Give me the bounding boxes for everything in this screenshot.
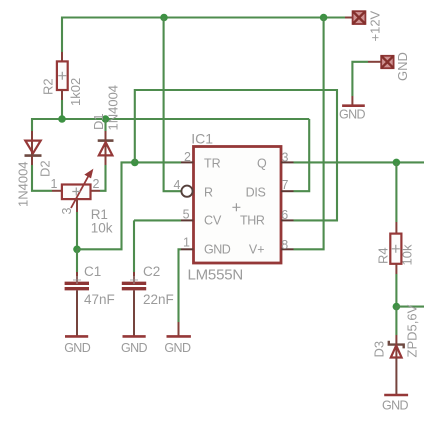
wire junction to C1 [76, 249, 78, 281]
pin name R [204, 185, 213, 199]
potentiometer R1 [62, 170, 93, 208]
pin number 1 [183, 236, 190, 250]
pin number 2 (R1) [93, 177, 100, 191]
pin 3 Q stub [281, 161, 294, 163]
svg-text:+12V: +12V [368, 10, 383, 41]
wire Q output [294, 161, 424, 163]
wire C2 bottom [133, 290, 135, 336]
pin name V+ [249, 243, 265, 257]
svg-text:6: 6 [281, 208, 288, 222]
pin name CV [204, 214, 222, 228]
pin 4 R bubble [181, 186, 192, 197]
svg-text:ZPD5,6V: ZPD5,6V [405, 304, 420, 357]
svg-text:10k: 10k [400, 244, 415, 265]
svg-text:1: 1 [51, 177, 58, 191]
wire Q to R4 [395, 162, 397, 233]
pin number 3 (R1) [60, 208, 74, 215]
wire TR to THR loop [135, 90, 337, 220]
resistor R4 [390, 234, 401, 264]
label R2 [40, 78, 55, 95]
ground symbol (C2) [123, 335, 146, 338]
svg-text:10k: 10k [91, 220, 113, 235]
label C1 [84, 264, 101, 279]
svg-text:22nF: 22nF [143, 292, 174, 307]
pin number 3 [282, 151, 289, 165]
wire D1 top pin [104, 119, 106, 155]
junction TR riser [131, 159, 139, 167]
value 1k02 [68, 78, 83, 106]
ground label (C2) [121, 341, 148, 355]
svg-text:1: 1 [183, 236, 190, 250]
wire reset riser [164, 18, 182, 192]
svg-text:D1: D1 [91, 113, 106, 130]
wire R4 bottom [395, 264, 397, 307]
wire D2 bottom to R1 pin1 [32, 156, 62, 191]
svg-text:GND: GND [121, 341, 148, 355]
value 10k (R4) [400, 244, 415, 265]
wire DIS riser [294, 119, 310, 191]
pin 2 TR stub [181, 161, 194, 163]
svg-text:GND: GND [164, 341, 191, 355]
svg-text:LM555N: LM555N [188, 267, 244, 284]
svg-text:2: 2 [93, 177, 100, 191]
junction D1 top [102, 115, 110, 123]
svg-text:D3: D3 [372, 341, 387, 358]
wire R2 top drop [61, 17, 63, 62]
label IC1 [191, 130, 213, 146]
pin number 4 [173, 178, 180, 192]
pad GND [381, 56, 393, 68]
pin name DIS [246, 185, 266, 199]
value 22nF [143, 292, 174, 307]
junction R4/D3 [393, 303, 401, 311]
pin 5 CV stub [181, 219, 194, 221]
ground label (top right) [339, 108, 366, 122]
wire CV to C2 [134, 220, 181, 281]
svg-text:47nF: 47nF [84, 292, 115, 307]
svg-text:2: 2 [184, 150, 191, 164]
pin number 1 (R1) [51, 177, 58, 191]
svg-text:GND: GND [64, 341, 91, 355]
pin number 2 [184, 150, 191, 164]
wire GND pad to ground [352, 62, 381, 106]
pin 7 DIS stub [281, 190, 294, 192]
IC U1 LM555N body [194, 147, 282, 264]
svg-text:5: 5 [183, 208, 190, 222]
ground symbol (pin1) [167, 335, 191, 338]
wire R1 wiper down [76, 199, 78, 249]
svg-text:THR: THR [240, 214, 265, 228]
value 1N4004 (D2) [16, 161, 31, 207]
wire D3 top [395, 307, 397, 358]
svg-text:GND: GND [204, 243, 231, 257]
svg-text:GND: GND [382, 399, 409, 413]
diode D1 [98, 141, 114, 156]
wire pin1 to GND [179, 249, 182, 336]
junction V+ riser on top rail [320, 14, 328, 22]
label +12V [368, 10, 383, 41]
label D2 [38, 160, 53, 177]
svg-text:R4: R4 [376, 247, 391, 264]
svg-text:4: 4 [173, 178, 180, 192]
capacitor C1 [65, 276, 89, 289]
capacitor C2 [122, 276, 146, 289]
wire D1 bottom to R1 pin2 [91, 155, 106, 190]
ground label (pin1) [164, 341, 191, 355]
junction Q/R4 [393, 159, 401, 167]
pin number 6 [281, 208, 288, 222]
ground label (D3) [382, 399, 409, 413]
wire wiper to TR [77, 162, 181, 249]
pin name GND [204, 243, 231, 257]
svg-text:R2: R2 [40, 78, 55, 95]
svg-text:3: 3 [60, 208, 74, 215]
svg-text:CV: CV [204, 214, 222, 228]
pin 1 GND stub [181, 248, 194, 250]
ground symbol (D3) [384, 394, 408, 397]
svg-text:DIS: DIS [246, 185, 266, 199]
label R1 [91, 207, 108, 222]
svg-text:C2: C2 [143, 264, 160, 279]
svg-text:3: 3 [282, 151, 289, 165]
value 1N4004 (D1) [106, 85, 121, 131]
svg-text:GND: GND [395, 52, 410, 81]
ground label (C1) [64, 341, 91, 355]
wire top +12V rail [62, 16, 352, 18]
svg-text:8: 8 [281, 238, 288, 252]
pin 6 THR stub [281, 219, 294, 221]
ground symbol (top right) [342, 104, 365, 107]
pin number 5 [183, 208, 190, 222]
junction R2/diode rail [58, 115, 66, 123]
zener diode D3 [389, 341, 404, 358]
diode D2 [25, 141, 42, 156]
pin name THR [240, 214, 265, 228]
svg-text:1N4004: 1N4004 [106, 85, 121, 131]
junction pin4 riser on top rail [160, 14, 168, 22]
svg-text:Q: Q [257, 156, 267, 170]
svg-text:TR: TR [204, 156, 221, 170]
svg-text:IC1: IC1 [191, 130, 213, 146]
pin name Q [257, 156, 267, 170]
wire D3 bottom [395, 358, 397, 395]
wire C1 bottom [76, 290, 78, 336]
svg-text:7: 7 [282, 178, 289, 192]
value LM555N [188, 267, 244, 284]
label D3 [372, 341, 387, 358]
wire V+ riser [294, 18, 324, 250]
svg-text:1N4004: 1N4004 [16, 161, 31, 207]
svg-text:D2: D2 [38, 160, 53, 177]
pin number 8 [281, 238, 288, 252]
pin 8 V+ stub [281, 248, 294, 250]
svg-text:V+: V+ [249, 243, 265, 257]
wire D2 top drop [31, 118, 33, 156]
label GND (pad) [395, 52, 410, 81]
value ZPD5,6V [405, 304, 420, 357]
wire R2 bottom [61, 90, 63, 120]
pin number 7 [282, 178, 289, 192]
resistor R2 [57, 61, 68, 90]
value 10k (R1) [91, 220, 113, 235]
pad +12V [353, 11, 366, 24]
ground symbol (C1) [65, 335, 88, 338]
wire diode rail [32, 118, 309, 120]
pin name TR [204, 156, 221, 170]
label D1 [91, 113, 106, 130]
label R4 [376, 247, 391, 264]
wire junction to right edge [396, 306, 424, 308]
junction wiper/C1 [73, 246, 81, 254]
value 47nF [84, 292, 115, 307]
svg-text:1k02: 1k02 [68, 78, 83, 106]
svg-text:GND: GND [339, 108, 366, 122]
label C2 [143, 264, 160, 279]
svg-text:R: R [204, 185, 213, 199]
svg-text:C1: C1 [84, 264, 101, 279]
